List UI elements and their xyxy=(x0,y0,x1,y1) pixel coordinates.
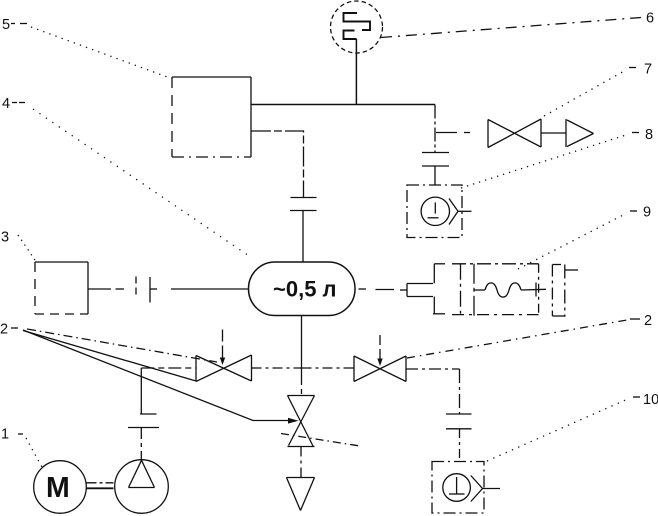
pump (circle with triangle) xyxy=(115,460,169,514)
svg-text:6: 6 xyxy=(646,11,654,27)
motor M xyxy=(34,461,87,514)
leader to 3 xyxy=(18,235,35,260)
wire branch from box to tank column xyxy=(251,131,304,197)
callout 5 xyxy=(2,17,10,33)
svg-text:1: 1 xyxy=(1,427,9,443)
leader to 1 xyxy=(18,434,43,469)
svg-text:2: 2 xyxy=(644,313,652,329)
hose unit 9: right coupling xyxy=(552,265,578,317)
svg-text:3: 3 xyxy=(1,230,9,246)
wire tank bottom xyxy=(301,316,303,369)
leader to 5 (dashes + dots) xyxy=(11,24,170,79)
svg-text:2: 2 xyxy=(0,322,8,338)
hose unit 9: dashed enclosure xyxy=(452,264,539,315)
leader to 6 (dash-dot from silencer) xyxy=(381,18,641,38)
coupling C8 (plates above gauge 8) xyxy=(422,153,449,167)
leader to 4 xyxy=(12,103,252,259)
valve 2 right (bowtie) xyxy=(354,356,406,382)
callout 8 xyxy=(645,127,653,143)
tank label xyxy=(273,277,337,302)
wire valve row left segment xyxy=(141,367,196,369)
wire row mid segments xyxy=(252,367,355,369)
svg-text:4: 4 xyxy=(2,96,10,112)
wire coupling to tank xyxy=(171,288,249,290)
wire right drop x435 xyxy=(434,105,436,153)
coupling C3 (half-coupling) xyxy=(136,277,157,303)
wire to gauge 8 xyxy=(434,166,436,185)
callout 1 xyxy=(1,427,9,443)
wire main line xyxy=(251,104,435,106)
wire pump riser xyxy=(140,368,142,414)
callout 10 xyxy=(643,392,658,408)
shaft coupling (double line) xyxy=(87,483,114,489)
box 3 (dashed box left) xyxy=(35,262,88,314)
callout 9 xyxy=(643,205,651,221)
hose unit 9: flexible hose wave xyxy=(485,283,546,297)
svg-text:~0,5 л: ~0,5 л xyxy=(273,277,337,302)
hose unit 9: cross tick xyxy=(535,283,537,297)
wire branch to valve 7 xyxy=(436,132,470,134)
svg-text:10: 10 xyxy=(643,392,658,408)
hose unit 9: plug xyxy=(400,284,433,297)
svg-text:8: 8 xyxy=(645,127,653,143)
callout 2 (right) xyxy=(644,313,652,329)
tank (receiver ~0,5 l) xyxy=(249,262,356,316)
svg-text:9: 9 xyxy=(643,205,651,221)
valve 2 left stem xyxy=(220,330,225,366)
leader to 9 xyxy=(518,211,637,269)
hose unit 9: flange lines xyxy=(461,264,486,317)
callout 3 xyxy=(1,230,9,246)
leader 2c through valve xyxy=(23,331,360,447)
wire to drain valve xyxy=(301,368,303,395)
wire coupling to pump xyxy=(140,428,142,460)
coupling C10 (plates above gauge 10) xyxy=(446,414,472,429)
wire valve7 to check arrow xyxy=(541,132,566,134)
wire box3 right xyxy=(88,288,124,290)
hose unit 9: socket xyxy=(433,264,445,314)
valve 2 right stem xyxy=(377,335,382,366)
wire to vent arrow xyxy=(300,447,302,478)
svg-text:M: M xyxy=(46,472,70,504)
leader 2a to left valve xyxy=(27,329,217,362)
callout 6 xyxy=(646,11,654,27)
callout 7 xyxy=(644,62,652,78)
callout 2 (left) xyxy=(0,322,8,338)
leader to 8 xyxy=(461,133,639,189)
gauge 10 (box with dial) xyxy=(432,462,500,514)
wire silencer to main line xyxy=(355,39,357,105)
valve 2 left (bowtie) xyxy=(196,355,252,382)
leader 2b to drain valve with arrow xyxy=(23,330,299,424)
wire to gauge 10 xyxy=(459,429,461,462)
check valve arrow (vent) xyxy=(566,119,594,147)
vent arrow (open triangle) xyxy=(287,478,315,511)
leader to 7 xyxy=(544,68,636,117)
drain valve (vertical bowtie) xyxy=(288,396,315,447)
coupling C1 (plates above pump) xyxy=(128,414,159,428)
wire tank right dashes xyxy=(359,288,395,291)
svg-text:5: 5 xyxy=(2,17,10,33)
leader to right 2 xyxy=(407,319,640,358)
callout 4 xyxy=(2,96,10,112)
silencer U6 (circle with meander) xyxy=(331,1,383,53)
svg-text:7: 7 xyxy=(644,62,652,78)
wire to tank top xyxy=(302,211,304,263)
filter unit box 5 (dashed box top-left) xyxy=(172,77,251,157)
valve 7 (bowtie) xyxy=(488,119,541,148)
leader 2 dash xyxy=(11,327,18,329)
leader to 10 xyxy=(487,397,640,461)
gauge 8 (box with dial) xyxy=(407,185,472,238)
wire row right to gauge 10 xyxy=(406,369,460,414)
coupling C4 (tank top plates) xyxy=(290,198,317,211)
